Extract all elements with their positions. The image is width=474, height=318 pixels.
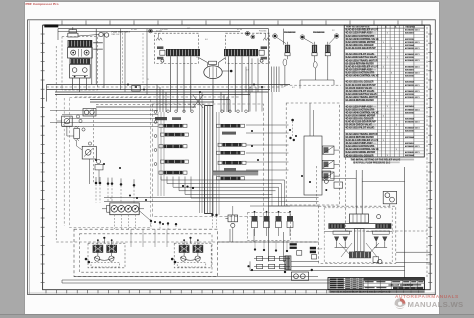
svg-text:2.1: 2.1 xyxy=(96,36,99,38)
svg-text:4C.062: 4C.062 xyxy=(131,29,137,31)
svg-text:1.02: 1.02 xyxy=(60,87,64,89)
svg-text:062: 062 xyxy=(187,28,190,30)
svg-text:1.6: 1.6 xyxy=(196,57,199,59)
svg-text:4C 66: 4C 66 xyxy=(237,29,242,31)
svg-text:PILOT: PILOT xyxy=(317,248,323,250)
svg-text:1.3: 1.3 xyxy=(258,33,261,35)
svg-text:6: 6 xyxy=(250,87,251,89)
svg-text:P2: P2 xyxy=(110,198,112,200)
svg-text:21: 21 xyxy=(147,79,149,81)
svg-text:P.N 4946: P.N 4946 xyxy=(259,30,266,32)
svg-text:P.N 4946: P.N 4946 xyxy=(160,29,168,31)
svg-text:0.2: 0.2 xyxy=(292,87,295,89)
svg-text:P.2: P.2 xyxy=(332,30,335,32)
svg-text:REF 1.02: REF 1.02 xyxy=(112,34,120,36)
svg-text:0.6: 0.6 xyxy=(205,39,208,41)
svg-text:0.9: 0.9 xyxy=(246,70,249,72)
